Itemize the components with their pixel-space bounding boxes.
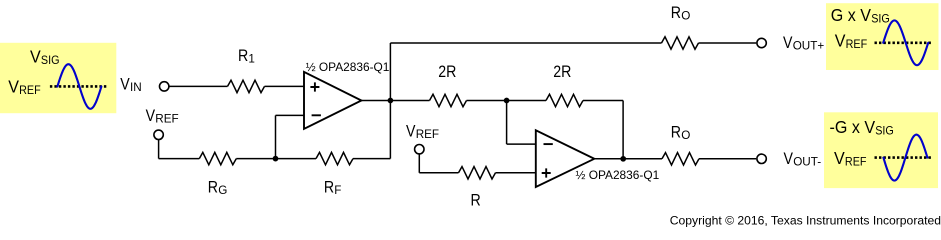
wire U1A output: [361, 100, 390, 102]
U1A minus input symbol: [312, 114, 321, 116]
svg-text:R: R: [671, 124, 681, 142]
output sine wave (non-inverted): [883, 20, 928, 65]
svg-text:1: 1: [248, 53, 255, 66]
wire junction down to U1B -input: [506, 101, 508, 145]
resistor RF: [316, 152, 353, 164]
svg-text:R: R: [208, 179, 218, 197]
junction U1B output node: [620, 156, 626, 162]
svg-text:G x V: G x V: [831, 5, 872, 25]
svg-text:½ OPA2836-Q1: ½ OPA2836-Q1: [306, 60, 390, 74]
wire RO to VOUT-: [699, 158, 756, 160]
wire RO to VOUT+: [699, 42, 757, 44]
wire VREF2 down: [418, 154, 420, 173]
dotted VREF line (bottom right box): [875, 156, 932, 159]
input sine wave: [57, 64, 101, 109]
output annotation box VOUT+ (G x VSIG): [826, 3, 939, 70]
wire node to 2R: [390, 100, 429, 102]
svg-text:SIG: SIG: [871, 13, 890, 26]
svg-text:OUT-: OUT-: [793, 156, 821, 169]
wire U1B output to RO: [594, 158, 662, 160]
output annotation box VOUT- (-G x VSIG): [824, 112, 938, 188]
terminal VIN: [160, 82, 169, 91]
svg-text:V: V: [784, 150, 794, 168]
wire RF to output node: [353, 158, 390, 160]
svg-text:REF: REF: [846, 38, 868, 51]
wire top rail to RO: [390, 42, 661, 44]
svg-text:REF: REF: [155, 113, 178, 126]
wire 2R to 2R: [467, 100, 547, 102]
wire feedback down to U1B output: [622, 101, 624, 159]
wire VREF2 to R: [419, 172, 458, 174]
svg-text:V: V: [8, 77, 20, 97]
svg-text:O: O: [681, 129, 690, 142]
resistor RO (bottom): [662, 153, 699, 165]
output sine wave (inverted): [883, 135, 927, 181]
U1A plus input symbol: [310, 82, 319, 91]
resistor 2R (first): [430, 94, 467, 106]
wire RG to RF: [236, 158, 316, 160]
wire VREF down: [158, 139, 160, 158]
svg-text:SIG: SIG: [41, 55, 60, 68]
wire VIN to R1: [169, 85, 228, 87]
wire vertical output node: [389, 43, 391, 159]
svg-text:SIG: SIG: [875, 125, 894, 138]
wire R to U1B +input: [496, 172, 536, 174]
wire to U1B -input: [507, 143, 536, 145]
svg-text:Copyright © 2016, Texas Instru: Copyright © 2016, Texas Instruments Inco…: [670, 213, 941, 227]
svg-text:REF: REF: [19, 85, 41, 98]
wire 2R to feedback corner: [583, 100, 623, 102]
svg-text:R: R: [471, 192, 481, 210]
wire VREF to RG: [159, 158, 200, 160]
svg-text:½ OPA2836-Q1: ½ OPA2836-Q1: [576, 168, 660, 182]
terminal VOUT+: [757, 38, 766, 47]
dotted VREF line (top right box): [875, 41, 932, 44]
input signal annotation box (VSIG/VREF): [0, 43, 116, 113]
svg-text:V: V: [783, 34, 793, 52]
svg-text:R: R: [671, 4, 681, 22]
svg-text:V: V: [834, 148, 846, 168]
wire R1 to U1A +input: [265, 85, 305, 87]
resistor RG: [199, 152, 236, 164]
svg-text:2R: 2R: [553, 63, 571, 81]
svg-text:V: V: [835, 31, 847, 51]
svg-text:OUT+: OUT+: [793, 40, 825, 53]
U1B minus input symbol: [544, 143, 553, 145]
junction RG/RF/feedback node: [273, 156, 279, 162]
op-amp U1B (1/2 OPA2836-Q1): [536, 130, 595, 187]
svg-text:2R: 2R: [438, 63, 456, 81]
svg-text:R: R: [324, 179, 334, 197]
dotted VREF line (input box): [50, 85, 106, 88]
junction U1A output node: [388, 98, 394, 104]
svg-text:F: F: [334, 184, 341, 197]
junction 2R/2R node: [504, 98, 510, 104]
resistor R1: [228, 80, 265, 92]
svg-text:REF: REF: [416, 128, 439, 141]
terminal VOUT-: [757, 154, 766, 163]
terminal VREF left: [154, 130, 163, 139]
terminal VREF middle: [415, 145, 424, 154]
svg-text:REF: REF: [845, 156, 867, 169]
svg-text:R: R: [238, 47, 248, 65]
svg-text:V: V: [146, 107, 156, 125]
wire junction up to -input: [275, 115, 277, 158]
svg-text:V: V: [406, 122, 416, 140]
svg-text:V: V: [120, 76, 130, 94]
wire to U1A -input: [276, 114, 305, 116]
svg-text:G: G: [218, 184, 227, 197]
resistor R: [459, 167, 496, 179]
U1B plus input symbol: [542, 168, 551, 177]
resistor RO (top): [662, 37, 699, 49]
resistor 2R (second): [546, 94, 583, 106]
svg-text:-G x V: -G x V: [830, 117, 876, 137]
svg-text:O: O: [681, 9, 690, 22]
svg-text:V: V: [30, 47, 42, 67]
svg-text:IN: IN: [130, 81, 142, 94]
op-amp U1A (1/2 OPA2836-Q1): [304, 72, 361, 129]
